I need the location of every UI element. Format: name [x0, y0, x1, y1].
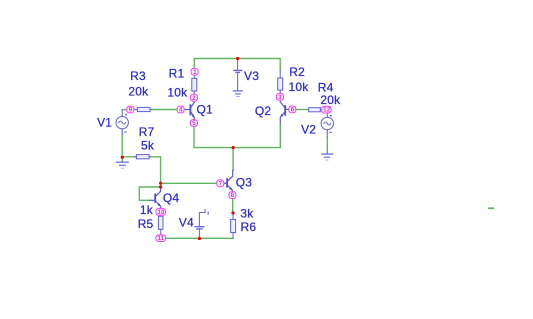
- resistor R6: [231, 213, 236, 238]
- node 8 (Q3 emitter): [229, 192, 236, 200]
- svg-text:1k: 1k: [140, 203, 154, 217]
- svg-text:Q1: Q1: [197, 102, 214, 116]
- source V1: [116, 110, 128, 134]
- svg-text:R6: R6: [241, 220, 257, 234]
- svg-text:8: 8: [231, 193, 235, 199]
- svg-text:5k: 5k: [141, 138, 155, 152]
- junction bottom rail / V4: [198, 237, 201, 240]
- svg-text:10k: 10k: [289, 80, 310, 94]
- node 3 (R2 bottom): [276, 94, 283, 102]
- junction Q3 emitter / R6: [231, 211, 234, 214]
- node 10 (Q4 emitter): [156, 208, 166, 216]
- resistor R5: [158, 215, 163, 234]
- ground under V1: [117, 157, 129, 168]
- ground under V3: [233, 91, 242, 97]
- transistor Q4: [150, 187, 161, 208]
- svg-text:Q4: Q4: [163, 191, 180, 205]
- node 5 (Q1 emitter): [190, 120, 197, 128]
- wire R3 to node 4: [152, 109, 178, 111]
- wire V1 top to node 9: [122, 109, 128, 111]
- wire emitter rail: [194, 123, 280, 170]
- wire node 8 to R6 junction: [232, 199, 234, 213]
- wire V2 bottom to ground: [326, 137, 328, 152]
- node 1: [191, 68, 198, 76]
- svg-text:R3: R3: [130, 69, 146, 83]
- junction loop / Q4 collector: [159, 185, 162, 188]
- resistor R7: [135, 155, 152, 159]
- wire bottom rail: [161, 237, 233, 239]
- svg-text:20k: 20k: [320, 93, 341, 107]
- wire R7 to bus drop: [151, 157, 161, 187]
- svg-text:V2: V2: [301, 122, 316, 136]
- transistor Q3: [224, 170, 233, 191]
- node 12 (R4 right): [322, 106, 332, 114]
- battery V4: [195, 209, 208, 238]
- svg-text:12: 12: [323, 108, 331, 114]
- svg-text:R5: R5: [138, 217, 154, 231]
- svg-text:7: 7: [219, 181, 223, 187]
- node 11 (R5 bottom): [156, 235, 166, 243]
- wire node 6 to R4: [296, 109, 309, 111]
- node 2 (R1 bottom): [190, 94, 197, 102]
- wire V1 bottom to ground junction: [121, 134, 123, 157]
- node 7 (Q3 base): [217, 180, 224, 188]
- wire top rail: [194, 59, 280, 71]
- svg-text:2: 2: [192, 96, 196, 102]
- wire bus to node 7: [161, 182, 217, 184]
- svg-text:11: 11: [158, 236, 165, 242]
- svg-text:Q2: Q2: [255, 104, 272, 118]
- svg-text:3: 3: [278, 95, 282, 101]
- node 4 (Q1 base): [177, 106, 184, 114]
- source V2: [321, 113, 333, 137]
- wire node 9 to R3: [133, 109, 137, 111]
- node 6 (Q2 base): [289, 106, 296, 114]
- junction bus / R7 drop: [159, 182, 162, 185]
- ground under V2: [322, 152, 333, 160]
- junction top rail / V3: [236, 57, 239, 60]
- wire Q4 base loop: [139, 187, 160, 200]
- resistor R1: [192, 75, 197, 94]
- transistor Q2: [280, 100, 289, 122]
- junction emitter rail / Q3: [232, 146, 235, 149]
- resistor R3: [134, 107, 152, 111]
- transistor Q1: [184, 101, 194, 119]
- svg-text:V4: V4: [179, 215, 194, 229]
- junction V1 / ground / R7: [121, 156, 124, 159]
- wire junction to R7: [122, 156, 136, 158]
- svg-text:R7: R7: [139, 125, 155, 139]
- svg-text:6: 6: [291, 108, 295, 114]
- svg-text:R1: R1: [169, 67, 185, 81]
- battery V3: [234, 60, 242, 91]
- svg-text:4: 4: [179, 108, 183, 114]
- svg-text:10: 10: [158, 210, 166, 216]
- resistor R2: [278, 71, 283, 94]
- resistor R4: [309, 108, 323, 112]
- svg-text:1: 1: [193, 70, 197, 76]
- svg-text:V1: V1: [97, 116, 112, 130]
- svg-text:5: 5: [192, 121, 196, 127]
- svg-text:20k: 20k: [128, 84, 149, 98]
- svg-text:Q3: Q3: [236, 176, 253, 190]
- svg-text:9: 9: [129, 108, 133, 114]
- stray wire segment: [488, 207, 494, 209]
- svg-text:3k: 3k: [240, 207, 254, 221]
- svg-text:R2: R2: [289, 65, 305, 79]
- svg-text:V3: V3: [244, 69, 259, 83]
- node 9 (V1 top): [127, 106, 134, 114]
- svg-text:10k: 10k: [167, 86, 188, 100]
